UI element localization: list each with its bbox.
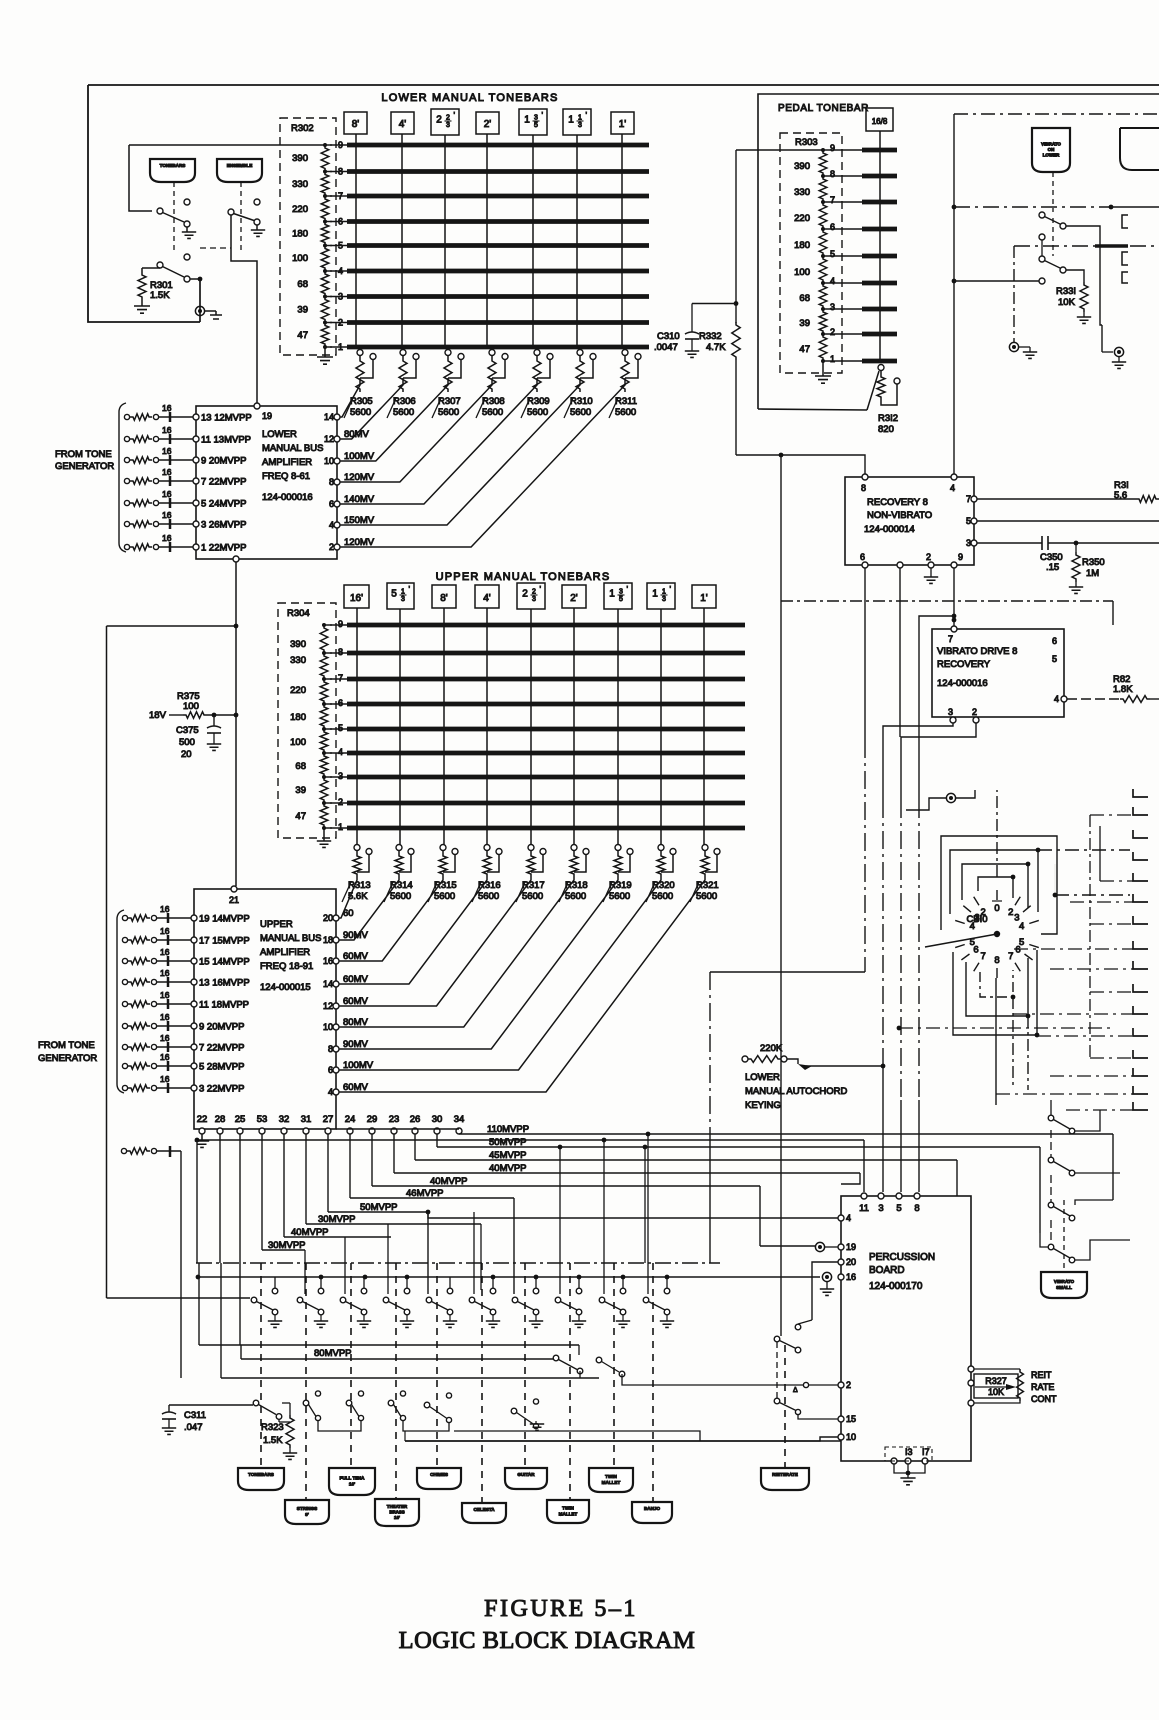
svg-text:5600: 5600 — [570, 407, 591, 418]
block: RECOVERY & NON-VIBRATO 124-000014 — [845, 477, 974, 565]
wire: 40MVPP connector line — [760, 1245, 815, 1247]
svg-text:2': 2' — [570, 593, 578, 604]
svg-text:C375: C375 — [176, 725, 199, 736]
stop tablet TWIN MALLET — [589, 1468, 633, 1492]
svg-text:47: 47 — [297, 330, 308, 341]
wire: tablet dashed stem — [395, 1263, 397, 1500]
svg-text:53: 53 — [257, 1114, 268, 1125]
svg-text:.047: .047 — [184, 1422, 203, 1433]
svg-text:5600: 5600 — [522, 891, 543, 902]
node: R304 tap pin 3 — [322, 775, 326, 779]
node: connector above CB10 — [946, 793, 955, 802]
wire: MVPP line 45MVPP from pin x=415 — [414, 1134, 416, 1160]
svg-text:20: 20 — [181, 749, 192, 760]
svg-text:8: 8 — [329, 477, 334, 487]
wire: lower manual bus 7 — [330, 195, 347, 197]
switch: vibrato cascade — [1048, 1202, 1054, 1208]
wire: horizontal link y1028 — [899, 1027, 1113, 1029]
wire: loop right feeds — [1053, 893, 1058, 898]
svg-text:39: 39 — [297, 305, 308, 316]
svg-text:16: 16 — [162, 489, 172, 499]
pin 4 right of upper amplifier — [333, 1089, 339, 1095]
resistor ladder R302 (dashed box) — [280, 118, 336, 355]
tonebar box 1' — [611, 112, 634, 134]
svg-text:5600: 5600 — [565, 891, 586, 902]
svg-text:220: 220 — [794, 213, 810, 224]
wire: R316 slash — [472, 882, 481, 902]
tonebar box 1 3/5' — [519, 109, 547, 135]
svg-text:3 22MVPP: 3 22MVPP — [199, 1084, 244, 1095]
stop tablet FULL TIBIA 16' — [329, 1468, 375, 1495]
svg-text:TONEBARS: TONEBARS — [248, 1472, 274, 1477]
tonebar box 1 1/3' — [647, 583, 675, 609]
switch: tablet column 2 — [320, 1277, 322, 1288]
switch: tablet column 9 — [622, 1277, 624, 1288]
pin 10 percussion — [838, 1434, 844, 1440]
svg-text:21: 21 — [229, 895, 239, 905]
svg-text:FREQ 8-61: FREQ 8-61 — [262, 471, 310, 482]
resistor R314 5600 — [396, 845, 402, 851]
wire: pole riser col2 — [304, 1250, 306, 1294]
wire: pin 12 to R317 — [339, 877, 531, 1006]
svg-text:5600: 5600 — [434, 891, 455, 902]
wire: MVPP line 46MVPP from pin x=350 — [349, 1134, 351, 1198]
svg-text:R321: R321 — [696, 880, 719, 891]
wire: upper manual bus 1 — [330, 827, 347, 829]
wire: 2 2/3' tonebar drop — [444, 135, 446, 349]
svg-text:6: 6 — [973, 944, 978, 955]
svg-text:1M: 1M — [1086, 568, 1099, 579]
svg-text:30MVPP: 30MVPP — [318, 1214, 356, 1225]
wire: MVPP line 30MVPP from pin x=262 — [261, 1134, 263, 1250]
wire: tonebars tab dashed stem — [173, 182, 175, 254]
switch: vibrato cascade — [1048, 1115, 1054, 1121]
wire: tablet dashed stem — [524, 1263, 526, 1468]
svg-text:6: 6 — [1052, 636, 1057, 646]
ground: C375 — [213, 733, 215, 744]
wire: pin 9 to vibrato drive pin 7 — [953, 568, 955, 626]
node: circled junction lower-left — [195, 306, 204, 315]
wire: pedal bus 3 — [823, 308, 862, 310]
wire: vibrato section border — [954, 113, 1159, 115]
svg-text:5600: 5600 — [615, 407, 636, 418]
wire: 46MVPP drop to switch 6 — [513, 1198, 515, 1294]
wire: right edge hook — [1133, 873, 1148, 881]
svg-text:VIBRATO: VIBRATO — [1041, 141, 1061, 146]
svg-text:C310: C310 — [657, 331, 680, 342]
wire: right edge hook — [1133, 1102, 1148, 1110]
svg-text:16: 16 — [162, 425, 172, 435]
node: rail junction — [577, 1275, 582, 1280]
svg-text:7 22MVPP: 7 22MVPP — [199, 1043, 244, 1054]
svg-text:8': 8' — [305, 1512, 309, 1517]
svg-text:2: 2 — [830, 327, 835, 337]
pin 8 right of upper amplifier — [333, 1046, 339, 1052]
wire: CB10 lever feed — [906, 798, 946, 810]
wire: pin 3 to percussion pin 3 vertical — [883, 723, 953, 800]
input resistor 16 / pin 1 — [124, 544, 129, 549]
wire: tablet dashed stem — [569, 1263, 571, 1500]
wire: R323 top link — [289, 1403, 291, 1415]
pin 2 percussion — [838, 1382, 844, 1388]
resistor R315 5600 — [440, 845, 446, 851]
svg-text:R316: R316 — [478, 880, 501, 891]
svg-text:19: 19 — [846, 1242, 856, 1252]
wire: outer frame top — [88, 84, 1159, 86]
node: CB10 position 5 — [1029, 945, 1039, 948]
svg-text:R327: R327 — [985, 1376, 1007, 1386]
node: CB10 position 4 — [1029, 920, 1039, 923]
wire: vibrato bus y207 — [954, 206, 1111, 208]
input resistor 16 / pin 15 — [122, 958, 127, 963]
svg-text:5 24MVPP: 5 24MVPP — [201, 499, 246, 510]
svg-text:3: 3 — [338, 771, 343, 781]
svg-text:3: 3 — [948, 707, 953, 717]
stop tablet TWIN MALLET 2 — [547, 1500, 589, 1523]
svg-text:LOGIC BLOCK DIAGRAM: LOGIC BLOCK DIAGRAM — [399, 1627, 696, 1654]
tonebar box 2 2/3' — [517, 583, 545, 609]
wire: lower manual bus 9 — [330, 144, 347, 146]
wire: cascade riser — [1050, 1100, 1052, 1115]
svg-text:16: 16 — [162, 403, 172, 413]
wire: tablet dashed stem — [436, 1263, 438, 1468]
svg-text:16: 16 — [160, 968, 170, 978]
svg-text:PEDAL TONEBAR: PEDAL TONEBAR — [778, 103, 869, 114]
svg-text:RATE: RATE — [1031, 1382, 1054, 1392]
tonebar box 1 3/5' — [604, 583, 632, 609]
svg-text:1.5K: 1.5K — [150, 290, 170, 301]
svg-text:110MVPP: 110MVPP — [487, 1124, 529, 1135]
resistor R318 5600 — [571, 845, 577, 851]
node: R302 tap pin 8 — [323, 170, 327, 174]
pin 9 recovery bottom — [951, 562, 957, 568]
svg-text:9: 9 — [338, 619, 343, 629]
wire: bundle vertical x995 lower — [995, 1080, 997, 1105]
wire: pin1 bottom drop to upper amp pin21 — [233, 556, 239, 562]
wire: 1 1/3' drop — [660, 609, 662, 845]
wire: switch array rail 2 to percussion pin 16 — [198, 1276, 820, 1278]
svg-text:1: 1 — [524, 115, 530, 126]
wire: pole riser col9 — [603, 1140, 605, 1294]
svg-text:100: 100 — [794, 267, 810, 278]
input resistor 16 / pin 5 — [122, 1063, 127, 1068]
svg-text:GENERATOR: GENERATOR — [38, 1053, 97, 1064]
wire: vibrato bus y281 — [954, 280, 1039, 282]
svg-text:3: 3 — [830, 302, 835, 312]
svg-text:50MVPP: 50MVPP — [489, 1137, 527, 1148]
wire: right edge hook — [1133, 916, 1148, 924]
tonebar box 2 2/3' — [431, 109, 459, 135]
svg-text:32: 32 — [279, 1114, 290, 1125]
svg-text:16: 16 — [160, 926, 170, 936]
wire: jog left at y972 — [710, 971, 865, 973]
pin 12 right of lower amplifier — [334, 436, 340, 442]
svg-text:GUITAR: GUITAR — [517, 1472, 535, 1477]
node: R302 tap pin 2 — [323, 321, 327, 325]
svg-text:FROM TONE: FROM TONE — [55, 449, 112, 460]
svg-text:4: 4 — [970, 921, 975, 932]
wire: line y1345 — [199, 1344, 579, 1346]
svg-text:R310: R310 — [570, 396, 593, 407]
svg-text:5600: 5600 — [393, 407, 414, 418]
node: R303 tap pin 5 — [821, 254, 825, 258]
wire: CB10 stem 8 down — [995, 978, 997, 1080]
wire: pin 12 to R306 — [340, 378, 403, 439]
svg-text:4: 4 — [338, 266, 343, 276]
pin 12 right of upper amplifier — [333, 1003, 339, 1009]
switch: percussion reiterate A — [803, 1382, 808, 1387]
node: R302 tap pin 7 — [323, 194, 327, 198]
resistor ladder R303 (dashed box) — [780, 133, 842, 373]
wire: 16' drop — [356, 608, 358, 845]
svg-text:FULL TIBIA: FULL TIBIA — [340, 1476, 366, 1481]
svg-text:8: 8 — [994, 955, 999, 966]
wire: pedal box bottom + switch to R312 — [758, 409, 867, 410]
svg-text:16: 16 — [162, 446, 172, 456]
wire: CB10 loop 1-0 — [978, 877, 1013, 898]
svg-text:5600: 5600 — [438, 407, 459, 418]
node: R302 tap pin 5 — [323, 244, 327, 248]
wire: right edge feed — [1070, 901, 1133, 903]
wire: switch throw to node — [190, 278, 200, 280]
switch: vibrato lower 1 — [1039, 212, 1045, 218]
svg-text:13 12MVPP: 13 12MVPP — [201, 413, 252, 424]
ground: tablet column 7 — [535, 1315, 537, 1321]
tonebar box 16' — [344, 585, 369, 608]
pin 3 vibrato drive bottom — [950, 717, 956, 723]
svg-text:4.7K: 4.7K — [706, 342, 726, 353]
svg-text:390: 390 — [794, 161, 810, 172]
node: R304 tap pin 2 — [322, 801, 326, 805]
input resistor 16 / pin 3 — [122, 1085, 127, 1090]
ground: beside junction — [205, 310, 216, 312]
pin 19 percussion — [838, 1244, 844, 1250]
svg-text:28: 28 — [215, 1114, 226, 1125]
wire: input bracket (upper) — [117, 910, 124, 1093]
svg-text:16': 16' — [350, 593, 363, 604]
svg-text:R315: R315 — [434, 880, 457, 891]
svg-text:MANUAL BUS: MANUAL BUS — [262, 443, 323, 454]
svg-text:R311: R311 — [615, 396, 637, 407]
wire: right edge feed — [1090, 991, 1133, 993]
pin 19 top of lower amplifier — [254, 403, 260, 409]
wire: lower manual bus 8 — [330, 171, 347, 173]
resistor R319 5600 — [615, 845, 621, 851]
stop tablet TONEBARS — [150, 159, 195, 182]
wire: pedal feed from bus — [736, 149, 823, 151]
wire: contact stem — [1039, 234, 1045, 240]
wire: x710 drop to switch rail — [709, 972, 711, 1140]
svg-text:2: 2 — [329, 542, 334, 552]
wire: pole riser col10 — [647, 1134, 649, 1294]
svg-text:8: 8 — [830, 169, 835, 179]
capacitor C375 500 20 — [213, 715, 215, 726]
pin 3 top of percussion board — [878, 1193, 884, 1199]
pin 14 right of upper amplifier — [333, 981, 339, 987]
wire: blank pin drop — [899, 568, 901, 737]
svg-text:5: 5 — [534, 122, 538, 129]
svg-text:R33I: R33I — [1056, 286, 1076, 297]
svg-text:5600: 5600 — [527, 407, 548, 418]
svg-text:2: 2 — [846, 1380, 851, 1390]
wire: U link cols2 — [403, 1421, 449, 1431]
svg-text:ON: ON — [1048, 147, 1055, 152]
wire: pin 8 to R319 — [339, 877, 618, 1049]
svg-text:R303: R303 — [795, 137, 818, 148]
resistor R306 5600 — [400, 350, 406, 356]
wire: percussion left switch upper — [795, 1324, 801, 1330]
wire: 1 1/3' tonebar drop — [576, 135, 578, 349]
wire: lower manual bus 2 — [330, 322, 347, 324]
wire: x200 link — [200, 247, 231, 249]
svg-text:30: 30 — [432, 1114, 443, 1125]
svg-text:330: 330 — [292, 179, 308, 190]
svg-text:2: 2 — [926, 552, 931, 562]
pin 11 top of percussion board — [861, 1193, 867, 1199]
switch: vibrato cascade — [1048, 1157, 1054, 1163]
svg-text:13 16MVPP: 13 16MVPP — [199, 978, 250, 989]
tonebar box 1' — [692, 585, 716, 608]
wire: C310/R332 node — [735, 150, 737, 304]
switch: tonebars cancel — [157, 208, 163, 214]
capacitor C311 .047 — [169, 1404, 253, 1406]
svg-text:2: 2 — [522, 589, 528, 600]
wire: right edge feed — [1090, 814, 1133, 816]
wire: right edge hook — [1133, 1050, 1148, 1058]
node: R303 tap pin 6 — [821, 227, 825, 231]
svg-text:9 20MVPP: 9 20MVPP — [201, 456, 246, 467]
svg-text:0: 0 — [994, 903, 999, 914]
stop tablet cut at right edge — [1120, 128, 1159, 170]
svg-text:20: 20 — [323, 913, 333, 923]
wire: R315 slash — [428, 882, 437, 902]
wire: pole riser col3 — [344, 1237, 346, 1294]
wire: CB10 stem 0 up — [996, 790, 998, 877]
pin 4 right of lower amplifier — [334, 522, 340, 528]
svg-text:2: 2 — [338, 797, 343, 807]
svg-text:6: 6 — [329, 499, 334, 509]
svg-text:100: 100 — [292, 253, 308, 264]
wire: right edge feed — [1050, 1075, 1133, 1077]
svg-text:16: 16 — [160, 1033, 170, 1043]
svg-text:MANUAL BUS: MANUAL BUS — [260, 933, 321, 944]
svg-text:5600: 5600 — [482, 407, 503, 418]
switch: tablet column 7 — [535, 1277, 537, 1288]
svg-text:27: 27 — [323, 1114, 334, 1125]
wire: 1' tonebar drop — [621, 134, 623, 349]
svg-text:18V: 18V — [149, 710, 167, 721]
wire: bus9 feed from tonebars switch — [129, 144, 325, 146]
stop tablet REITERATE — [761, 1468, 809, 1490]
ground: tonebars switch — [186, 227, 188, 232]
svg-text:30MVPP: 30MVPP — [268, 1240, 306, 1251]
wire: tablet dashed stem — [652, 1263, 654, 1502]
pin 14 right of lower amplifier — [334, 414, 340, 420]
svg-text:12: 12 — [323, 1001, 333, 1011]
wire: pin 2 to percussion pin 5 vertical — [901, 723, 976, 800]
ground: R331 — [1083, 312, 1085, 317]
svg-text:8': 8' — [440, 593, 448, 604]
svg-text:11 18MVPP: 11 18MVPP — [199, 1000, 249, 1011]
capacitor C350 .15 — [977, 542, 1042, 544]
resistor chain R303 zigzag — [819, 150, 827, 176]
svg-text:MANUAL AUTOCHORD: MANUAL AUTOCHORD — [745, 1086, 848, 1097]
stray input resistor 16 — [121, 1148, 126, 1153]
tonebar box 1 1/3' — [563, 109, 591, 135]
wire: 4' drop — [486, 608, 488, 845]
svg-text:FREQ 18-91: FREQ 18-91 — [260, 961, 313, 972]
ground: R323 — [289, 1448, 291, 1453]
switch: tab transfer — [533, 1399, 538, 1404]
wire: R321 slash — [690, 882, 699, 902]
stop tablet THEATER BRASS 16' — [375, 1499, 419, 1526]
wire: bottom pin extension line — [336, 1128, 459, 1130]
svg-text:1 22MVPP: 1 22MVPP — [201, 543, 246, 554]
wire: upper manual bus 5 — [330, 728, 347, 730]
wire: pedal bus 1 — [823, 360, 862, 362]
svg-text:5 28MVPP: 5 28MVPP — [199, 1062, 244, 1073]
wire: R305 slash — [344, 398, 353, 418]
svg-text:10K: 10K — [1058, 297, 1076, 308]
svg-text:7: 7 — [948, 634, 953, 644]
resistor R350 1M — [1074, 541, 1079, 546]
svg-text:VIBRATO DRIVE 8: VIBRATO DRIVE 8 — [937, 646, 1017, 657]
svg-text:2: 2 — [436, 115, 442, 126]
svg-text:180: 180 — [290, 712, 306, 723]
svg-text:C311: C311 — [184, 1410, 206, 1421]
wire: right edge feed — [996, 1093, 1133, 1095]
node: R304 tap pin 9 — [322, 623, 326, 627]
ground: C310 — [691, 339, 693, 351]
wire: pin 2 to R311 — [340, 378, 625, 547]
wire: switch array rail 1 — [196, 1262, 720, 1264]
svg-text:R307: R307 — [438, 396, 461, 407]
svg-text:1: 1 — [652, 589, 658, 600]
switch: tablet column 4 — [406, 1277, 408, 1288]
svg-text:16': 16' — [349, 1481, 355, 1486]
pin blank recovery bottom — [897, 562, 903, 568]
wire: 2 2/3' drop — [530, 609, 532, 845]
svg-text:16: 16 — [323, 956, 333, 966]
wire: switch outputs right — [579, 1371, 581, 1378]
svg-text:R308: R308 — [482, 396, 505, 407]
wire: 16/8 drop — [879, 131, 881, 362]
svg-text:Δ: Δ — [793, 1387, 798, 1394]
svg-text:5: 5 — [966, 516, 971, 526]
svg-text:BANJO: BANJO — [644, 1506, 661, 1511]
node: R303 tap pin 1 — [821, 359, 825, 363]
pin 20 percussion — [838, 1259, 844, 1265]
svg-text:40MVPP: 40MVPP — [291, 1227, 329, 1238]
svg-text:45MVPP: 45MVPP — [489, 1150, 527, 1161]
svg-text:I3: I3 — [905, 1447, 913, 1457]
node: rail junction — [665, 1275, 670, 1280]
ground: R301 — [141, 300, 143, 306]
pin 4 vibrato drive — [1061, 696, 1067, 702]
node: R303 tap pin 7 — [821, 200, 825, 204]
svg-text:2: 2 — [981, 907, 986, 918]
node: CB10 position 2 — [1015, 897, 1020, 906]
switch: percussion select B — [596, 1357, 602, 1363]
resistor R310 5600 — [577, 350, 583, 356]
wire: 110MVPP drop to vibrato cascade — [1112, 1134, 1114, 1200]
svg-text:4: 4 — [338, 747, 343, 757]
switch: ensemble — [228, 209, 234, 215]
wire: pin 4 to R321 — [339, 877, 705, 1092]
svg-text:BOARD: BOARD — [869, 1265, 905, 1276]
svg-text:8: 8 — [914, 1203, 919, 1214]
wire: right edge hook — [1133, 1068, 1148, 1076]
